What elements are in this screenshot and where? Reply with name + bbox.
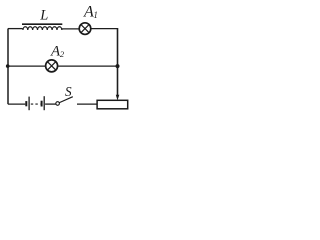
svg-text:A: A [83, 4, 94, 21]
svg-text:S: S [65, 84, 72, 99]
svg-text:1: 1 [93, 10, 98, 20]
svg-text:L: L [39, 8, 48, 24]
svg-text:2: 2 [60, 49, 65, 59]
